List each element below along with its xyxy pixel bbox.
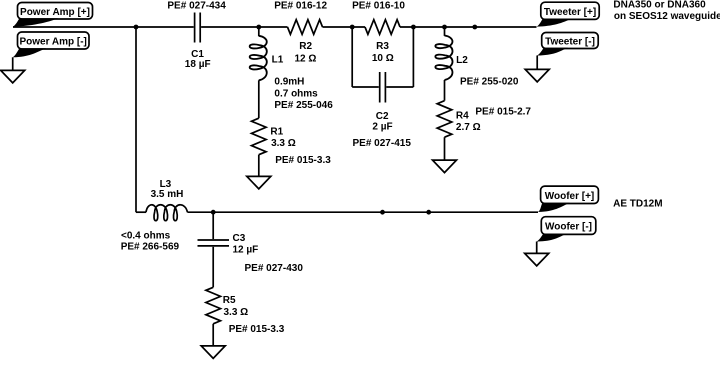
svg-text:12 µF: 12 µF [233,245,259,256]
svg-text:PE# 266-569: PE# 266-569 [121,242,180,253]
svg-text:Tweeter [+]: Tweeter [+] [544,7,596,18]
svg-text:10 Ω: 10 Ω [372,53,394,64]
svg-text:PE# 255-020: PE# 255-020 [460,77,519,88]
svg-text:2.7 Ω: 2.7 Ω [456,122,481,133]
svg-text:PE# 015-2.7: PE# 015-2.7 [475,107,531,118]
svg-text:Tweeter [-]: Tweeter [-] [545,37,595,48]
svg-text:2 µF: 2 µF [372,121,392,132]
svg-text:L2: L2 [456,55,468,66]
svg-text:0.7 ohms: 0.7 ohms [274,89,318,100]
svg-text:PE# 027-415: PE# 027-415 [353,138,412,149]
svg-text:R3: R3 [376,41,389,52]
svg-text:PE# 016-10: PE# 016-10 [352,0,405,11]
svg-text:L1: L1 [272,55,284,66]
svg-text:0.9mH: 0.9mH [274,76,304,87]
svg-text:3.5 mH: 3.5 mH [151,189,184,200]
svg-text:R5: R5 [223,295,236,306]
svg-text:Power Amp [+]: Power Amp [+] [20,7,90,18]
svg-text:18 µF: 18 µF [185,59,211,70]
svg-text:3.3 Ω: 3.3 Ω [224,307,249,318]
svg-text:PE# 027-430: PE# 027-430 [245,263,304,274]
svg-text:PE# 255-046: PE# 255-046 [274,100,333,111]
svg-text:Power Amp [-]: Power Amp [-] [19,37,86,48]
svg-text:12 Ω: 12 Ω [294,53,316,64]
svg-text:Woofer [-]: Woofer [-] [545,222,592,233]
svg-text:<0.4 ohms: <0.4 ohms [121,230,171,241]
svg-text:C2: C2 [376,111,389,122]
svg-text:DNA350 or DNA360: DNA350 or DNA360 [613,0,706,11]
svg-text:PE# 015-3.3: PE# 015-3.3 [275,155,331,166]
svg-text:C3: C3 [233,233,246,244]
svg-text:R4: R4 [456,111,469,122]
svg-text:R2: R2 [299,41,312,52]
svg-text:AE TD12M: AE TD12M [613,199,662,210]
svg-text:PE# 015-3.3: PE# 015-3.3 [229,324,285,335]
svg-text:R1: R1 [270,127,283,138]
svg-text:on SEOS12 waveguide: on SEOS12 waveguide [614,11,720,22]
svg-text:PE# 016-12: PE# 016-12 [274,0,327,11]
svg-text:3.3 Ω: 3.3 Ω [271,138,296,149]
svg-text:PE# 027-434: PE# 027-434 [167,0,226,11]
svg-text:Woofer [+]: Woofer [+] [545,191,595,202]
